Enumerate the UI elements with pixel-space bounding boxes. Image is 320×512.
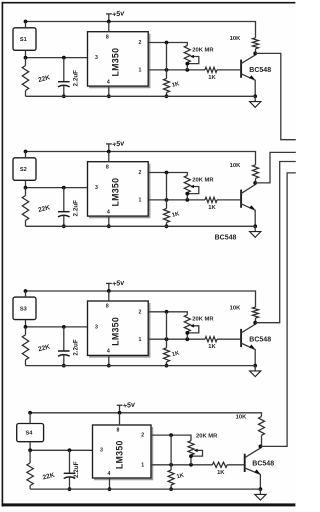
wire pin1 to base network block 4: [151, 464, 212, 466]
svg-text:20K MR: 20K MR: [196, 434, 218, 440]
resistor 22K block 4: [29, 450, 31, 463]
resistor 1K base block 2: [205, 197, 217, 202]
svg-text:+5v: +5v: [122, 399, 136, 410]
switch S4: [17, 424, 44, 442]
svg-text:+5v: +5v: [111, 278, 125, 289]
op-amp U3 LM350: [89, 303, 150, 357]
svg-text:2.2uF: 2.2uF: [72, 339, 79, 356]
wire S3 to node row: [25, 320, 27, 327]
svg-text:+5v: +5v: [111, 138, 125, 149]
svg-text:BC548: BC548: [249, 336, 271, 343]
wire pin4 to ground rail block 3: [108, 355, 110, 365]
svg-text:8: 8: [106, 34, 109, 40]
svg-text:2: 2: [138, 309, 141, 315]
transistor Q4 BC548: [244, 454, 246, 472]
wire ground rail block 2: [26, 225, 256, 227]
svg-text:1K: 1K: [208, 205, 216, 211]
resistor 1K base block 4: [212, 462, 227, 467]
svg-text:1K: 1K: [176, 473, 185, 481]
capacitor 2.2uF block 2: [63, 188, 65, 212]
resistor 10K collector block 1: [253, 38, 259, 49]
switch S3: [13, 297, 36, 320]
svg-text:20K MR: 20K MR: [192, 177, 214, 183]
svg-text:4: 4: [107, 79, 110, 85]
svg-text:4: 4: [107, 209, 110, 215]
svg-text:S4: S4: [25, 431, 33, 437]
resistor 22K block 1: [25, 58, 27, 66]
svg-text:2: 2: [138, 40, 141, 46]
power +5V flag block 2: [108, 144, 110, 152]
wire output to edge block 1: [255, 53, 296, 139]
svg-text:10K: 10K: [230, 163, 241, 169]
svg-text:LM350: LM350: [110, 178, 120, 207]
svg-text:1: 1: [138, 68, 141, 74]
border frame: [2, 2, 4, 507]
svg-text:8: 8: [117, 428, 120, 434]
resistor 10K collector block 4: [259, 417, 265, 436]
svg-text:2.2uF: 2.2uF: [72, 200, 79, 217]
wire S4 to node row: [29, 442, 31, 451]
wire pin4 to ground rail block 2: [108, 216, 110, 226]
pot wiper block 1: [187, 57, 199, 64]
capacitor 2.2uF block 4: [69, 450, 71, 473]
power +5V flag block 1: [108, 14, 110, 22]
svg-text:20K MR: 20K MR: [192, 47, 214, 53]
resistor 1K base block 1: [205, 67, 217, 72]
svg-text:2.2uF: 2.2uF: [73, 461, 80, 478]
wire S1 to node row: [25, 50, 27, 57]
wire pin2-pin1 junction link block 2: [166, 173, 168, 200]
wire output to edge block 2: [255, 152, 296, 183]
wire pin1 to base network block 2: [148, 199, 205, 201]
resistor 10K collector block 2: [253, 165, 259, 179]
wire pin4 to ground rail block 1: [108, 86, 110, 96]
svg-text:1K: 1K: [208, 344, 216, 350]
wire node row to IC pin3 block 2: [26, 187, 88, 189]
svg-text:1K: 1K: [217, 470, 225, 476]
svg-text:10K: 10K: [236, 415, 247, 421]
ground block 1: [254, 96, 256, 101]
svg-text:2.2uF: 2.2uF: [72, 70, 79, 87]
wire +5V rail block 2: [26, 152, 256, 165]
wire +5V rail block 4: [30, 413, 261, 417]
svg-text:LM350: LM350: [114, 440, 124, 469]
svg-text:LM350: LM350: [110, 48, 120, 77]
svg-text:BC548: BC548: [249, 67, 271, 74]
svg-text:3: 3: [100, 448, 103, 454]
svg-text:22K: 22K: [42, 472, 56, 482]
svg-text:S1: S1: [20, 37, 27, 43]
resistor 1K pulldown block 4: [170, 465, 172, 470]
svg-text:1K: 1K: [171, 81, 180, 89]
wire +5V rail block 3: [26, 291, 256, 307]
wire node row to IC pin3 block 3: [26, 326, 88, 328]
svg-text:8: 8: [106, 304, 109, 310]
potentiometer 20K block 4: [188, 441, 194, 455]
resistor 10K collector block 3: [253, 307, 259, 318]
resistor 1K base block 3: [205, 337, 217, 342]
svg-text:BC548: BC548: [252, 461, 274, 468]
svg-text:8: 8: [106, 164, 109, 170]
wire pin8 to rail block 3: [108, 291, 110, 301]
ground block 4: [259, 489, 261, 494]
svg-text:22K: 22K: [37, 74, 51, 84]
wire pin2-pin1 junction link block 4: [170, 435, 172, 465]
resistor 1K pulldown block 3: [166, 339, 168, 348]
svg-text:1K: 1K: [171, 211, 180, 219]
op-amp U4 LM350: [94, 427, 152, 479]
pot wiper block 4: [191, 450, 203, 456]
pot wiper block 3: [187, 326, 199, 333]
wire pin2-pin1 junction link block 1: [166, 43, 168, 70]
wire S4 to rail: [29, 413, 31, 424]
svg-text:10K: 10K: [230, 305, 241, 311]
svg-text:+5v: +5v: [111, 8, 125, 19]
wire pin2 to pot block 2: [148, 173, 187, 176]
transistor Q2 BC548: [240, 190, 242, 208]
svg-text:4: 4: [108, 471, 111, 477]
pot wiper block 2: [187, 187, 199, 194]
resistor 1K pulldown block 2: [166, 200, 168, 209]
wire output to edge block 4: [260, 173, 295, 447]
wire pin2-pin1 junction link block 3: [166, 312, 168, 339]
svg-text:20K MR: 20K MR: [192, 317, 214, 323]
potentiometer 20K block 2: [184, 176, 190, 193]
transistor Q1 BC548: [240, 60, 242, 78]
power +5V flag block 4: [119, 405, 121, 413]
wire ground rail block 3: [26, 365, 256, 367]
wire pin8 to rail block 1: [108, 22, 110, 32]
wire output to edge block 3: [255, 162, 296, 323]
wire pin2 to pot block 3: [148, 312, 187, 315]
switch S1: [13, 28, 36, 51]
power +5V flag block 3: [108, 283, 110, 291]
wire pin4 to ground rail block 4: [109, 478, 111, 489]
potentiometer 20K block 1: [184, 46, 190, 63]
wire S2 to rail: [25, 152, 27, 158]
op-amp U1 LM350: [89, 34, 150, 88]
svg-text:4: 4: [107, 349, 110, 355]
wire node row to IC pin3 block 1: [26, 57, 88, 59]
svg-text:1: 1: [138, 198, 141, 204]
resistor 22K block 2: [25, 188, 27, 196]
wire pin8 to rail block 2: [108, 152, 110, 162]
wire S1 to rail: [25, 22, 27, 28]
svg-text:22K: 22K: [37, 343, 51, 353]
svg-text:10K: 10K: [230, 36, 241, 42]
wire pin1 to base network block 3: [148, 338, 205, 340]
resistor 22K block 3: [25, 327, 27, 335]
wire node row to IC pin3 block 4: [30, 449, 92, 451]
svg-text:2: 2: [141, 433, 144, 439]
svg-text:22K: 22K: [37, 204, 51, 214]
wire +5V rail block 1: [26, 22, 256, 38]
transistor Q3 BC548: [240, 329, 242, 347]
svg-text:3: 3: [95, 185, 98, 191]
wire ground rail block 1: [26, 95, 256, 97]
ground block 3: [254, 366, 256, 371]
capacitor 2.2uF block 1: [63, 58, 65, 82]
wire S3 to rail: [25, 291, 27, 297]
wire pin2 to pot block 1: [148, 43, 187, 46]
svg-text:1: 1: [141, 462, 144, 468]
wire ground rail block 4: [30, 488, 260, 490]
svg-text:1: 1: [138, 337, 141, 343]
resistor 1K pulldown block 1: [166, 70, 168, 79]
switch S2: [13, 158, 36, 181]
wire S2 to node row: [25, 180, 27, 187]
svg-text:3: 3: [95, 55, 98, 61]
svg-text:LM350: LM350: [110, 317, 120, 346]
wire pin2 to pot block 4: [151, 435, 191, 441]
wire pin8 to rail block 4: [119, 413, 121, 425]
svg-text:S2: S2: [20, 167, 27, 173]
potentiometer 20K block 3: [184, 315, 190, 332]
capacitor 2.2uF block 3: [63, 327, 65, 351]
wire pin1 to base network block 1: [148, 69, 205, 71]
svg-text:3: 3: [95, 324, 98, 330]
ground block 2: [254, 226, 256, 231]
svg-text:BC548: BC548: [215, 235, 237, 242]
svg-text:S3: S3: [20, 306, 27, 312]
svg-text:1K: 1K: [208, 75, 216, 81]
op-amp U2 LM350: [89, 164, 150, 218]
svg-text:1K: 1K: [171, 350, 180, 358]
svg-text:2: 2: [138, 170, 141, 176]
